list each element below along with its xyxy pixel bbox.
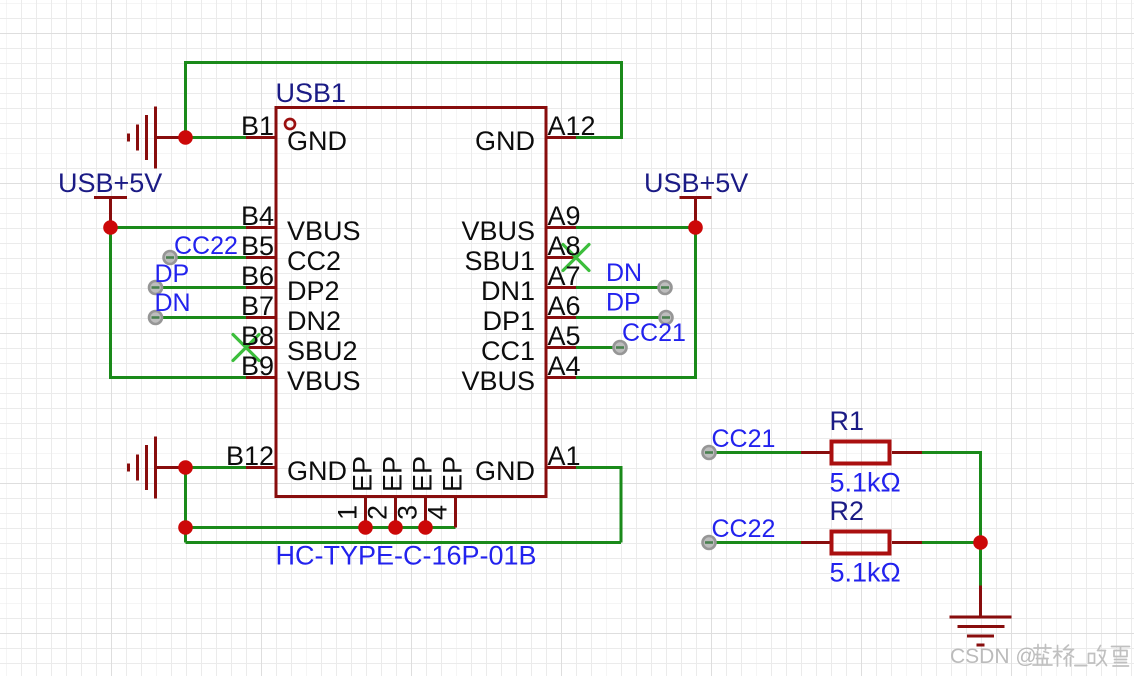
svg-text:1: 1 — [333, 505, 363, 520]
svg-text:CC21: CC21 — [622, 319, 686, 347]
svg-text:A7: A7 — [548, 261, 581, 291]
svg-text:B8: B8 — [241, 321, 274, 351]
svg-text:CC2: CC2 — [287, 246, 341, 276]
svg-text:VBUS: VBUS — [461, 366, 535, 396]
svg-text:R1: R1 — [830, 406, 865, 436]
svg-text:VBUS: VBUS — [287, 216, 361, 246]
svg-text:EP: EP — [348, 456, 378, 492]
svg-text:2: 2 — [363, 505, 393, 520]
svg-text:DP: DP — [155, 260, 190, 288]
svg-text:A4: A4 — [548, 351, 581, 381]
svg-text:B6: B6 — [241, 261, 274, 291]
svg-text:VBUS: VBUS — [287, 366, 361, 396]
svg-text:5.1kΩ: 5.1kΩ — [830, 558, 901, 588]
svg-text:CC22: CC22 — [174, 232, 238, 260]
svg-text:B1: B1 — [241, 111, 274, 141]
svg-text:VBUS: VBUS — [461, 216, 535, 246]
svg-text:GND: GND — [287, 456, 347, 486]
svg-text:B4: B4 — [241, 201, 274, 231]
svg-text:SBU2: SBU2 — [287, 336, 358, 366]
svg-text:A1: A1 — [548, 441, 581, 471]
svg-text:DN: DN — [606, 259, 642, 287]
svg-text:GND: GND — [475, 126, 535, 156]
svg-text:B5: B5 — [241, 231, 274, 261]
svg-text:CSDN @: CSDN @ — [950, 645, 1037, 668]
svg-text:EP: EP — [408, 456, 438, 492]
svg-text:A6: A6 — [548, 291, 581, 321]
svg-text:B12: B12 — [226, 441, 274, 471]
svg-text:USB+5V: USB+5V — [58, 168, 162, 198]
svg-text:GND: GND — [475, 456, 535, 486]
svg-text:DN: DN — [155, 289, 191, 317]
svg-text:B9: B9 — [241, 351, 274, 381]
svg-text:R2: R2 — [830, 496, 865, 526]
svg-text:DN1: DN1 — [481, 276, 535, 306]
svg-text:SBU1: SBU1 — [464, 246, 535, 276]
svg-text:CC22: CC22 — [712, 515, 776, 543]
svg-text:3: 3 — [393, 505, 423, 520]
svg-text:GND: GND — [287, 126, 347, 156]
svg-text:5.1kΩ: 5.1kΩ — [830, 468, 901, 498]
svg-text:A9: A9 — [548, 201, 581, 231]
svg-text:CC1: CC1 — [481, 336, 535, 366]
svg-text:A5: A5 — [548, 321, 581, 351]
svg-text:CC21: CC21 — [712, 425, 776, 453]
svg-text:DN2: DN2 — [287, 306, 341, 336]
svg-text:EP: EP — [438, 456, 468, 492]
svg-text:DP2: DP2 — [287, 276, 340, 306]
svg-text:B7: B7 — [241, 291, 274, 321]
svg-text:DP1: DP1 — [482, 306, 535, 336]
svg-text:A12: A12 — [548, 111, 596, 141]
svg-text:USB1: USB1 — [276, 78, 347, 108]
svg-text:4: 4 — [423, 505, 453, 520]
svg-text:EP: EP — [378, 456, 408, 492]
svg-text:USB+5V: USB+5V — [644, 168, 748, 198]
svg-text:A8: A8 — [548, 231, 581, 261]
svg-text:DP: DP — [606, 289, 641, 317]
svg-text:HC-TYPE-C-16P-01B: HC-TYPE-C-16P-01B — [276, 541, 537, 571]
